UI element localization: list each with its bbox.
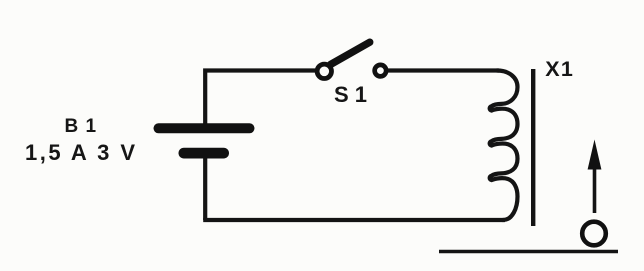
switch S1 left terminal circle bbox=[317, 64, 331, 78]
svg-text:1,5 A 3 V: 1,5 A 3 V bbox=[25, 140, 138, 165]
coil X1 winding (4 loops with hairpin cusps) bbox=[490, 71, 518, 221]
switch S1 right terminal circle bbox=[375, 65, 387, 77]
svg-text:S 1: S 1 bbox=[334, 82, 367, 107]
probe circle node bbox=[582, 222, 606, 246]
svg-text:B 1: B 1 bbox=[65, 116, 98, 137]
battery B1 positive (long) plate bbox=[154, 123, 255, 133]
wire: switch to coil bbox=[388, 68, 499, 72]
switch S1 lever bbox=[331, 42, 370, 64]
battery B1 negative (short) plate bbox=[179, 148, 230, 159]
base/ground line bottom right bbox=[439, 250, 618, 254]
wire: battery negative down to bottom wire bbox=[203, 158, 207, 220]
svg-text:X1: X1 bbox=[545, 57, 574, 81]
radiation arrow head bbox=[588, 140, 602, 170]
coil X1 core line bbox=[531, 69, 535, 226]
radiation arrow shaft bbox=[593, 166, 597, 213]
wire: top-left horizontal + left vertical to battery positive bbox=[205, 71, 316, 124]
wire: bottom horizontal to coil bbox=[203, 218, 505, 222]
